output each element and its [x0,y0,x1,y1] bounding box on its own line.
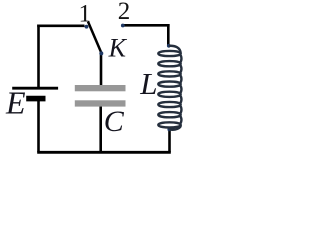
wire right vertical upper (corner down to inductor top) [167,24,170,46]
wire top-right horizontal (contact 2 to corner) [124,24,170,27]
wire right vertical lower (inductor bottom to bottom wire) [168,129,171,152]
node inductor bottom dot [167,127,171,131]
svg-text:1: 1 [79,0,92,27]
wire bottom horizontal [37,151,171,154]
wire left vertical upper (corner down to battery) [37,25,40,88]
wire left vertical lower (battery to bottom wire) [37,101,40,153]
svg-text:L: L [139,66,157,101]
switch K blade (from contact 1 to pivot) [88,22,101,53]
svg-text:E: E [5,85,26,121]
wire top-left horizontal (corner to switch contact 1) [37,24,84,27]
wire switch pivot down to capacitor top plate [100,53,103,86]
svg-text:2: 2 [118,0,131,25]
capacitor C bottom plate [75,100,126,106]
node contact 2 dot [121,24,125,28]
wire capacitor bottom plate down to bottom wire [99,106,102,153]
node contact 1 dot [85,25,89,29]
node inductor top dot [167,44,171,48]
svg-text:K: K [108,33,128,62]
battery E short plate [26,96,45,102]
svg-text:C: C [104,105,125,138]
inductor L coil [158,46,181,130]
node switch pivot dot [99,51,103,55]
battery E long plate [12,87,58,90]
capacitor C top plate [75,85,126,91]
